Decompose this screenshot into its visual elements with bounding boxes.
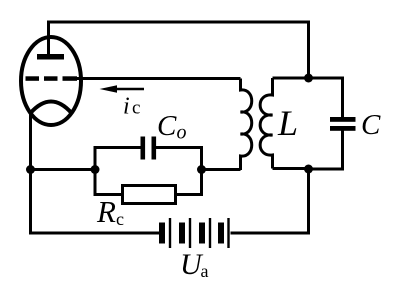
wire: feedback coil bottom to Rc/Co right node	[202, 168, 241, 171]
svg-text:c: c	[116, 209, 124, 229]
resistor Rc	[123, 186, 176, 204]
tube cathode	[31, 102, 72, 114]
capacitor C	[330, 117, 356, 131]
node: Rc/Co right	[197, 165, 206, 174]
wire: battery negative left along bottom and up to cathode	[31, 113, 160, 233]
inductor coil (feedback, grid side)	[241, 79, 252, 171]
svg-text:o: o	[177, 122, 187, 144]
capacitor Co	[141, 137, 157, 160]
node: cathode column junction	[26, 165, 35, 174]
wire: capacitor Co branch	[95, 148, 202, 170]
node: top-right junction	[304, 74, 313, 83]
wire: junction to Rc/Co left node	[31, 168, 96, 171]
svg-text:C: C	[361, 109, 381, 141]
inductor L	[260, 78, 272, 169]
svg-text:c: c	[132, 98, 140, 119]
svg-text:a: a	[201, 261, 209, 281]
svg-text:L: L	[277, 103, 298, 143]
wire: grid lead to left coil top	[77, 77, 241, 80]
wire: inductor L bottom to junction	[273, 167, 309, 170]
tube anode plate	[37, 22, 64, 60]
wire: anode to top rail to top-right junction	[49, 22, 309, 78]
svg-text:C: C	[157, 110, 177, 142]
wire: resistor Rc branch	[95, 170, 202, 195]
wire: junction down and left to battery positive	[231, 169, 309, 233]
battery Ua	[159, 218, 230, 248]
svg-text:i: i	[123, 94, 130, 120]
wire: inductor L top to junction	[273, 77, 309, 80]
wire: capacitor C bottom to bottom-right junction	[309, 130, 343, 169]
svg-text:R: R	[96, 194, 116, 229]
tube grid (dashed)	[26, 76, 78, 81]
arrow ic (current direction)	[100, 85, 145, 92]
node: Rc/Co left	[91, 165, 100, 174]
wire: junction to capacitor C top	[309, 78, 343, 118]
node: bottom-right junction	[304, 165, 313, 174]
tube V1 envelope	[21, 37, 81, 125]
